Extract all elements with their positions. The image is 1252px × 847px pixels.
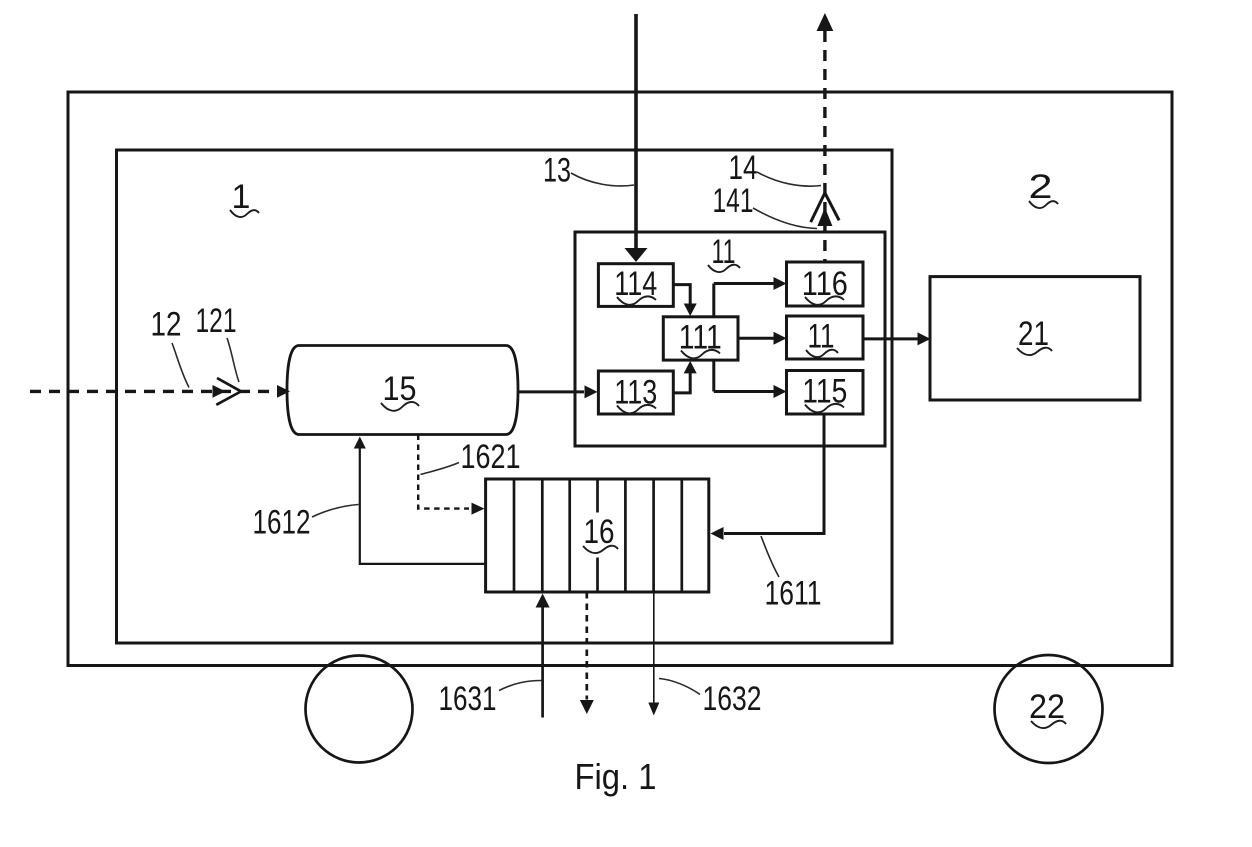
box 21 [930,277,1140,400]
wire from tank 15 to box 113 [518,390,584,393]
arrowhead into 112 [774,332,787,345]
wire: dashed inlet line 12 [30,390,284,393]
wire 111 to 116 [714,282,774,285]
leader 141 [753,208,817,229]
svg-text:1621: 1621 [461,438,521,476]
label 111 [679,319,722,359]
wire 114 to 111 [672,285,690,304]
leader 1632 [659,679,700,695]
outer box (vehicle 2 body) [68,92,1172,666]
svg-text:1611: 1611 [765,575,822,613]
box 112 (labeled 11) [787,316,864,359]
wire 113 to 111 [672,373,690,393]
wire: dashed down-arrow out of box 16 [585,592,588,700]
arrowhead 13 into 114 [625,248,648,262]
wheel 22 [995,655,1103,763]
label 11 (group) [708,233,740,272]
arrowhead on line 12 (mid) [213,385,226,398]
arrowhead into 111 top [684,304,697,317]
wire 1631: solid up-arrow into box 16 bottom [541,607,544,718]
wire 111 to 112 [738,337,774,340]
arrowhead 1612 into tank [354,437,366,449]
label 11 (in box 112) [806,318,838,358]
wire 13: vertical solid line into 114 [634,14,638,249]
leader 13 [571,173,634,186]
arrowhead 1621 into 16 [472,503,485,515]
tank 15 [287,346,518,435]
arrowhead on line 14 (below chevron) [817,208,832,227]
arrowhead into 21 [918,332,931,345]
box 115 [787,371,864,415]
svg-text:13: 13 [543,152,571,190]
wire 1612: from box 16 left around up into tank bottom [360,448,485,564]
svg-text:2: 2 [1029,168,1053,206]
arrowhead into 116 [774,277,787,290]
leader 121 [227,338,239,382]
arrowhead into 111 bottom [684,361,697,374]
label 15 [381,370,419,411]
label 114 [614,265,657,305]
wire 112 to 21 [863,337,918,340]
svg-text:1631: 1631 [439,680,497,718]
arrowhead into 115 [774,385,787,398]
svg-text:12: 12 [151,306,182,344]
wire 1611: from 115 down to box 16 [724,414,824,534]
arrowhead into tank 15 [277,385,290,398]
arrowhead into 16 right side [711,527,724,540]
leader 1612 [312,505,359,518]
box 16 (striped) [486,479,709,592]
wire 1621: dashed from tank bottom to box 16 [418,435,469,509]
label 21 [1017,315,1052,355]
leader 1621 [421,463,460,475]
wire 111 to 115 [714,390,774,393]
leader 14 [757,172,821,186]
arrowhead 1631 into 16 bottom [536,594,550,608]
box 116 [787,262,864,306]
arrowhead (dashed outlet, down) [580,700,594,714]
label 113 [614,374,657,414]
wire 1632: thin line down out of box 16 [653,592,655,703]
box 111 [663,317,738,360]
arrowhead 1632 (down) [648,703,659,716]
arrowhead 14 (top, exiting) [817,13,834,31]
svg-text:121: 121 [196,302,237,340]
label 1 [230,178,259,217]
svg-text:1: 1 [232,178,251,216]
label 115 [802,373,847,413]
label 116 [802,265,848,305]
label 16 [583,513,618,553]
inner box (unit 1) [117,150,893,643]
svg-text:1632: 1632 [703,680,762,718]
sub-box 11 (group) [575,232,885,446]
svg-text:141: 141 [713,182,754,220]
leader 12 [172,343,189,388]
leader 1611 [761,536,779,577]
svg-text:Fig. 1: Fig. 1 [575,756,657,797]
svg-text:1612: 1612 [253,504,311,542]
wheel (front, unlabeled) [306,656,413,763]
label 22 [1029,688,1066,728]
label 2 [1029,168,1059,208]
open chevron 121 [216,378,241,405]
box 114 [598,264,673,307]
open chevron 141 [811,193,839,222]
stripe lines of box 16 [514,479,682,592]
leader 1631 [499,681,542,691]
wire vertical feed-through behind 111 [712,284,715,392]
arrowhead into 113 [585,385,598,398]
box 113 [598,371,673,414]
wire 14: dashed vertical outlet line [823,31,826,262]
